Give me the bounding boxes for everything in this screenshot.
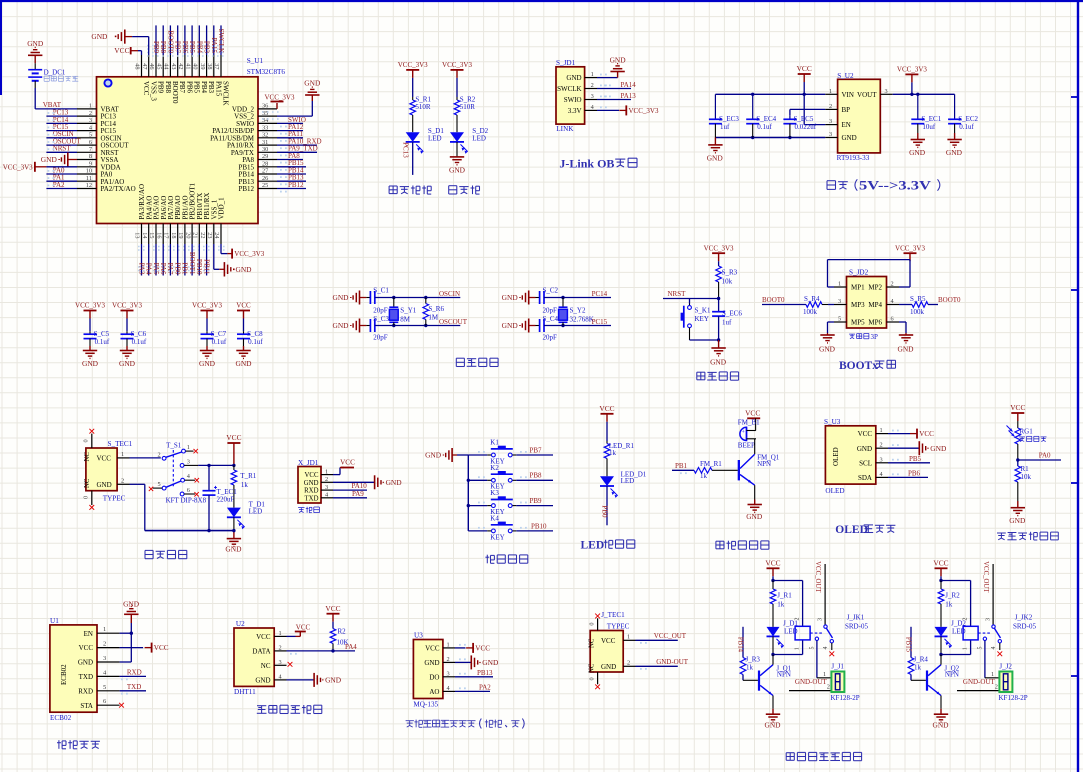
svg-text:GND: GND — [566, 74, 581, 82]
svg-text:GND: GND — [842, 134, 857, 142]
power GND at VSS_1 — [214, 244, 252, 277]
svg-text:GND: GND — [909, 148, 926, 157]
no-connect TEC1 bottom — [89, 505, 94, 510]
svg-text:S_R3: S_R3 — [722, 268, 738, 276]
wires and net labels PA3 PA4 PA5 PA6 PA7 PB0 PB1 BOOT1 PB10 PB11 (bottom) — [137, 244, 210, 276]
wire R1 to GND — [1017, 482, 1019, 508]
svg-text:3: 3 — [829, 118, 832, 125]
capacitor S_C6 0.1uf — [121, 319, 147, 351]
wire ECB02 VCC — [120, 643, 169, 653]
svg-text:PA4: PA4 — [145, 263, 153, 275]
svg-text:MP2: MP2 — [868, 284, 882, 292]
svg-text:GND: GND — [225, 544, 242, 553]
svg-text:20pF: 20pF — [373, 333, 388, 341]
wire crystal top rail — [544, 296, 611, 299]
svg-text:GND: GND — [82, 359, 99, 368]
svg-text:D_DC1: D_DC1 — [44, 68, 66, 76]
wire key net PB10 — [478, 522, 553, 531]
power VCC_3V3 at VDDA pin9 — [3, 162, 77, 172]
wire XJD1 pin3 net PA10 — [333, 482, 367, 490]
wire TEC1 GND down — [130, 484, 234, 532]
svg-text:PB9: PB9 — [530, 497, 543, 505]
svg-text:VCC_3V3: VCC_3V3 — [704, 244, 734, 252]
svg-text:4: 4 — [991, 647, 997, 650]
relay J_JK2 switch — [978, 561, 1037, 650]
svg-text:3: 3 — [591, 93, 594, 100]
capacitor S_EC5 0.022uf — [783, 115, 816, 137]
svg-text:33: 33 — [262, 124, 268, 131]
wire crystal bottom rail — [544, 324, 611, 327]
svg-text:NRST: NRST — [53, 145, 72, 153]
svg-text:U1: U1 — [50, 617, 59, 625]
sheet border left segment — [0, 0, 2, 95]
svg-text:3.3V: 3.3V — [568, 107, 582, 115]
wires and net labels PC13 PC14 PC15 OSCIN OSCOUT NRST — [46, 109, 81, 153]
svg-text:S_Y1: S_Y1 — [400, 306, 416, 314]
svg-text:OLED: OLED — [835, 524, 868, 536]
connector JTEC1 block — [590, 611, 629, 672]
svg-text:31: 31 — [262, 139, 268, 146]
power VCC above R2 — [325, 604, 340, 622]
svg-text:FM_B1: FM_B1 — [738, 419, 760, 427]
svg-text:BOOTx: BOOTx — [839, 360, 878, 372]
wire below S_D2 to GND — [456, 142, 458, 157]
svg-text:5: 5 — [810, 647, 816, 650]
svg-text:4: 4 — [823, 647, 829, 650]
svg-text:S_EC1: S_EC1 — [921, 115, 941, 123]
svg-text:1: 1 — [89, 103, 92, 110]
module U1 block ECB02 — [50, 617, 97, 722]
caption jidianqi kongzhi dianlu — [786, 752, 861, 760]
svg-text:15: 15 — [148, 232, 155, 238]
svg-text:J_R2: J_R2 — [945, 591, 960, 599]
svg-text:GND-OUT: GND-OUT — [656, 658, 689, 666]
svg-text:5V-->3.3V: 5V-->3.3V — [859, 178, 932, 193]
svg-text:PB0: PB0 — [174, 262, 182, 275]
svg-text:VCC: VCC — [256, 633, 271, 641]
svg-text:DHT11: DHT11 — [234, 688, 256, 696]
svg-text:3: 3 — [279, 659, 282, 666]
svg-text:3: 3 — [89, 117, 92, 124]
svg-text:1: 1 — [627, 634, 630, 641]
connector JD1 block — [556, 59, 585, 133]
power GND buzzer — [746, 505, 763, 522]
svg-text:PB1: PB1 — [675, 462, 688, 470]
led LED_D1 — [600, 471, 647, 498]
resistor S_R3 10k — [716, 261, 738, 285]
wire DHT11 DATA net PA4 — [287, 643, 358, 655]
wire switch pin3 to VCC rail — [198, 464, 234, 467]
svg-text:16: 16 — [155, 232, 162, 238]
resistor FM_R1 1k — [694, 460, 738, 480]
resistor J_R3 1k — [740, 655, 760, 674]
wire DHT11 GND — [287, 673, 342, 687]
svg-text:VCC: VCC — [745, 409, 760, 418]
svg-text:BOOT0: BOOT0 — [938, 296, 961, 304]
connector TEC1 pins — [83, 434, 130, 505]
svg-text:1k: 1k — [241, 481, 249, 489]
wire S_R2 to S_D2 — [456, 115, 458, 132]
resistor S_R2 510R — [454, 96, 476, 116]
svg-text:GND: GND — [449, 165, 466, 174]
svg-text:VSS_3: VSS_3 — [149, 81, 157, 101]
svg-text:PB6: PB6 — [186, 81, 194, 94]
connector JD2 block — [847, 268, 887, 341]
capacitor S_C8 0.1uf — [237, 319, 263, 351]
capacitor S_C4 20pF — [536, 315, 559, 341]
wire DHT11 VCC — [287, 623, 311, 636]
svg-text:PA3: PA3 — [137, 263, 145, 275]
wire relay pin5 down — [817, 641, 836, 679]
svg-text:VCC_OUT: VCC_OUT — [982, 561, 989, 593]
net label OSCOUT — [439, 318, 468, 326]
svg-text:S_TEC1: S_TEC1 — [108, 440, 133, 448]
svg-text:1k: 1k — [700, 472, 708, 480]
svg-text:PB9: PB9 — [152, 41, 160, 54]
wire RG1 to node PA0 — [1016, 444, 1019, 462]
svg-text:S_C6: S_C6 — [131, 330, 147, 338]
svg-text:GND: GND — [199, 359, 216, 368]
svg-text:LED: LED — [249, 507, 263, 515]
svg-text:GND-OUT: GND-OUT — [963, 678, 996, 686]
power GND label top right of U1 — [304, 79, 321, 88]
power GND above ECB02 — [123, 600, 140, 624]
svg-text:PB8: PB8 — [159, 41, 167, 54]
svg-text:GND: GND — [235, 359, 252, 368]
svg-text:2: 2 — [158, 452, 161, 459]
svg-text:S_U3: S_U3 — [824, 418, 841, 426]
svg-text:1: 1 — [447, 641, 450, 648]
wire key net PB9 — [478, 497, 553, 506]
svg-text:30: 30 — [262, 146, 268, 153]
svg-text:GND: GND — [332, 321, 349, 330]
svg-text:1: 1 — [103, 626, 106, 633]
svg-text:VCC_3V3: VCC_3V3 — [3, 163, 33, 171]
svg-text:MP6: MP6 — [868, 319, 882, 327]
power GND keys — [425, 448, 457, 462]
resistor J_R2 1k — [938, 581, 960, 609]
power VCC above buzzer — [745, 409, 760, 419]
svg-text:PA5: PA5 — [152, 263, 160, 275]
wire U2 BP to EC5 — [790, 109, 825, 115]
power VCC above S_C8 — [236, 302, 251, 319]
svg-text:0: 0 — [83, 439, 90, 442]
snap dot bands near U1 (decorative) — [138, 46, 282, 271]
svg-text:26: 26 — [262, 175, 268, 182]
svg-text:TYPEC: TYPEC — [103, 494, 126, 502]
resistor S_R4 100k — [803, 295, 834, 316]
svg-text:J-Link OB: J-Link OB — [559, 157, 614, 171]
svg-text:PB7: PB7 — [178, 81, 186, 94]
svg-text:1: 1 — [121, 451, 124, 458]
svg-text:SWIO: SWIO — [564, 96, 582, 104]
svg-text:2: 2 — [794, 618, 800, 621]
power GND at VSS_2 pin35 — [277, 87, 320, 116]
wire net BOOT0 right — [928, 296, 961, 305]
power GND top-left (battery) — [27, 39, 44, 63]
transistor J_Q2 NPN — [926, 655, 960, 696]
svg-text:S_C5: S_C5 — [94, 330, 110, 338]
svg-text:PA14: PA14 — [621, 81, 637, 89]
net label PC15 — [592, 318, 608, 326]
power VCC_3V3 above S_R1 — [398, 61, 428, 78]
svg-text:PA15: PA15 — [210, 38, 218, 54]
svg-text:PC13: PC13 — [401, 142, 409, 158]
svg-text:GND: GND — [502, 321, 519, 330]
svg-text:PB8: PB8 — [530, 472, 543, 480]
svg-text:MP3: MP3 — [851, 301, 865, 309]
svg-text:45: 45 — [155, 63, 162, 69]
svg-text:VCC: VCC — [114, 46, 129, 55]
svg-text:PB5: PB5 — [188, 41, 196, 54]
power GND left of S_C4 — [502, 319, 536, 333]
svg-text:10: 10 — [86, 168, 92, 175]
power VCC above LED_R1 — [599, 404, 614, 422]
svg-text:40: 40 — [192, 63, 199, 69]
svg-text:R2: R2 — [338, 628, 347, 636]
capacitor S_C5 0.1uf — [84, 319, 110, 351]
svg-text:1: 1 — [880, 427, 883, 434]
svg-text:GND: GND — [932, 721, 949, 730]
svg-text:0.022uf: 0.022uf — [795, 123, 817, 131]
regulator U2 pins — [825, 88, 893, 142]
svg-text:VCC: VCC — [79, 644, 94, 652]
display U3 pins — [857, 427, 899, 482]
power VCC_3V3 above JD2 — [895, 244, 925, 261]
svg-text:PB8: PB8 — [164, 81, 172, 94]
svg-text:36: 36 — [262, 103, 268, 110]
wire T_D1 bottom — [232, 517, 235, 538]
svg-text:PA9: PA9 — [352, 490, 364, 498]
transistor FM_Q1 NPN — [738, 453, 780, 485]
svg-text:GND: GND — [946, 148, 963, 157]
svg-text:PB1: PB1 — [181, 262, 189, 275]
wire JD1 pin3 net PA13 — [597, 92, 636, 100]
svg-text:RT9193-33: RT9193-33 — [837, 154, 870, 162]
push button K3 KEY — [468, 489, 516, 516]
wire ECB02 RXD net TXD — [120, 683, 146, 695]
svg-text:LED: LED — [428, 134, 442, 142]
svg-text:VDD_1: VDD_1 — [218, 197, 226, 220]
svg-text:STM32C8T6: STM32C8T6 — [247, 68, 286, 76]
power VCC_3V3 above output — [897, 66, 927, 95]
svg-text:VCC: VCC — [475, 645, 490, 653]
svg-text:S_EC3: S_EC3 — [719, 115, 739, 123]
caption J-Link OB jiekou — [559, 157, 637, 171]
connector JD2 pins — [834, 281, 899, 327]
wire GND to VSS_3 — [132, 37, 149, 55]
wire JD2 pin6 to GND — [899, 322, 906, 335]
svg-text:BP: BP — [842, 106, 851, 114]
svg-text:OLED: OLED — [825, 487, 844, 495]
svg-text:1: 1 — [591, 71, 594, 78]
power VCC light sensor — [1010, 403, 1025, 421]
svg-text:PB6: PB6 — [908, 469, 921, 477]
svg-text:VCC: VCC — [425, 645, 440, 653]
wire S_R3 to node NRST — [717, 282, 720, 300]
svg-text:J_JK2: J_JK2 — [1015, 614, 1033, 622]
svg-text:TYPEC: TYPEC — [607, 623, 630, 631]
power GND J_Q2 — [932, 714, 949, 729]
svg-text:VCC: VCC — [601, 637, 616, 645]
svg-text:2: 2 — [325, 476, 328, 483]
svg-text:NPN: NPN — [757, 460, 771, 468]
push button K2 KEY — [468, 464, 516, 491]
svg-text:SDA: SDA — [858, 474, 872, 482]
svg-text:NC: NC — [261, 662, 271, 670]
svg-text:27: 27 — [262, 168, 268, 175]
wire below LED_D1 net PB0 — [601, 486, 609, 525]
svg-text:PB5: PB5 — [193, 81, 201, 94]
svg-text:FM_R1: FM_R1 — [700, 460, 722, 468]
wire net PB1 — [672, 462, 694, 474]
svg-text:34: 34 — [262, 117, 269, 124]
wire MQ135 AO net PA2 — [455, 683, 491, 691]
svg-text:1M: 1M — [428, 314, 439, 322]
resistor J_R1 1k — [770, 581, 792, 609]
svg-text:510R: 510R — [460, 103, 476, 111]
svg-text:LED: LED — [621, 477, 635, 485]
no-connect DHT11 NC — [288, 662, 293, 667]
svg-text:J_R3: J_R3 — [746, 655, 761, 663]
svg-text:STA: STA — [80, 702, 93, 710]
svg-text:20: 20 — [184, 232, 191, 238]
svg-text:VCC: VCC — [797, 64, 812, 73]
svg-text:GND: GND — [746, 512, 763, 521]
svg-text:GND: GND — [601, 663, 616, 671]
svg-text:J_J2: J_J2 — [999, 662, 1012, 670]
power GND light sensor — [1009, 508, 1026, 525]
svg-text:KEY: KEY — [490, 533, 504, 541]
caption BOOTx shezhi — [839, 360, 896, 372]
svg-text:43: 43 — [170, 63, 177, 69]
svg-text:PA10: PA10 — [352, 482, 368, 490]
svg-text:S_R4: S_R4 — [804, 295, 820, 303]
battery D_DC1 — [28, 63, 78, 88]
svg-text:3: 3 — [838, 298, 841, 305]
svg-text:NPN: NPN — [945, 670, 959, 678]
wire net NRST — [663, 290, 719, 298]
power GND left of S_C2 — [502, 291, 536, 305]
wire MQ135 VCC — [455, 643, 490, 653]
svg-text:TXD: TXD — [127, 683, 141, 691]
no-connect TEC1 top — [89, 429, 94, 434]
power VCC_3V3 above S_C6 — [112, 302, 142, 319]
svg-text:PB11: PB11 — [202, 259, 210, 275]
svg-text:0.1uf: 0.1uf — [959, 123, 974, 131]
crystal S_Y1 8M — [389, 298, 416, 326]
svg-text:3: 3 — [817, 618, 823, 621]
svg-text:GND: GND — [27, 39, 44, 48]
svg-text:17: 17 — [163, 232, 170, 238]
power GND below S_C6 — [119, 351, 136, 369]
svg-text:22: 22 — [199, 232, 206, 238]
svg-text:K4: K4 — [490, 514, 499, 522]
display U3 block OLED — [824, 418, 876, 495]
svg-text:PB13: PB13 — [477, 669, 493, 677]
crystal S_Y2 32.768K — [559, 298, 594, 326]
wire net GND-OUT to J_J1 — [789, 678, 835, 691]
svg-text:DATA: DATA — [252, 648, 270, 656]
wire emitter J_Q2 to GND — [940, 696, 942, 715]
svg-text:PA2/TX/AO: PA2/TX/AO — [101, 185, 136, 193]
wire J_D2 bottom rail — [939, 636, 970, 656]
resistor S_R5 100k — [899, 295, 928, 316]
svg-text:VCC: VCC — [296, 623, 311, 631]
svg-text:2: 2 — [121, 478, 124, 485]
resistor J_R4 1k — [908, 655, 928, 674]
svg-text:1uf: 1uf — [720, 123, 730, 131]
caption jingzhen dianlu — [456, 358, 498, 366]
wire crystal top rail — [375, 296, 461, 299]
resistor T_R1 1k — [231, 465, 257, 489]
svg-text:32: 32 — [262, 132, 268, 139]
net label OSCIN — [439, 290, 460, 298]
svg-text:MP5: MP5 — [851, 319, 865, 327]
resistor S_R6 1M — [423, 298, 444, 326]
svg-text:2: 2 — [89, 110, 92, 117]
power VCC left of U1 top — [114, 46, 138, 55]
svg-text:S_JD2: S_JD2 — [849, 268, 869, 276]
svg-text:1uf: 1uf — [722, 318, 732, 326]
svg-text:0: 0 — [589, 622, 596, 625]
svg-text:KEY: KEY — [695, 315, 709, 323]
svg-text:5: 5 — [158, 481, 161, 488]
power GND left of S_C3 — [332, 319, 366, 333]
power VCC above U2 — [797, 64, 812, 96]
svg-text:PB4: PB4 — [200, 81, 208, 94]
svg-text:S_EC5: S_EC5 — [794, 115, 814, 123]
relay J_JK1 switch — [810, 561, 869, 650]
wire keys gnd bus — [457, 455, 470, 531]
svg-text:GND: GND — [424, 659, 439, 667]
svg-text:1k: 1k — [746, 664, 754, 672]
svg-text:3P: 3P — [871, 333, 879, 341]
svg-text:PA15: PA15 — [214, 81, 222, 97]
svg-text:1: 1 — [187, 444, 190, 451]
svg-text:1: 1 — [794, 647, 800, 650]
caption kongqi zhiliang jiance mokuai — [406, 719, 525, 729]
wire JD1 pin2 net PA14 — [597, 81, 636, 89]
wires and net labels PA0 PA1 PA2 — [46, 166, 77, 189]
power VCC_3V3 at VDD_2 pin36 — [265, 94, 295, 109]
svg-text:VCC_3V3: VCC_3V3 — [897, 66, 927, 74]
svg-text:EN: EN — [84, 630, 93, 638]
no-connect ECB02 STA — [119, 703, 124, 708]
resistor R2 10K — [330, 622, 348, 647]
svg-text:35: 35 — [262, 110, 268, 117]
svg-text:0.1uf: 0.1uf — [132, 338, 147, 346]
svg-text:S_R5: S_R5 — [910, 295, 926, 303]
svg-text:PA7: PA7 — [166, 263, 174, 275]
svg-text:S_C1: S_C1 — [373, 287, 389, 295]
svg-text:GND: GND — [41, 155, 58, 164]
svg-text:SRD-05: SRD-05 — [1013, 623, 1036, 631]
svg-text:0: 0 — [83, 496, 90, 499]
caption fengmingqi dianlu — [716, 541, 769, 550]
svg-text:3: 3 — [103, 655, 106, 662]
svg-text:1: 1 — [325, 468, 328, 475]
svg-text:1k: 1k — [777, 600, 785, 608]
svg-text:510R: 510R — [415, 103, 431, 111]
svg-text:RXD: RXD — [78, 687, 93, 695]
svg-text:3: 3 — [985, 618, 991, 621]
svg-text:3: 3 — [187, 458, 190, 465]
wire OLED pin3 net PB5 — [888, 455, 930, 463]
svg-text:1k: 1k — [945, 600, 953, 608]
svg-text:VCC_3V3: VCC_3V3 — [265, 94, 295, 102]
svg-text:PB0: PB0 — [601, 505, 609, 518]
